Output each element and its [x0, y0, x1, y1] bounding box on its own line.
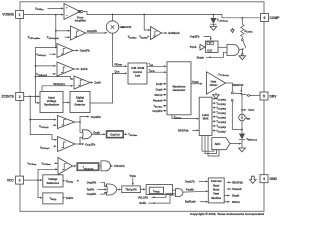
wire VCC rail [241, 94, 255, 115]
svg-text:Ocp2Fb: Ocp2Fb [87, 192, 97, 196]
block fault and burst mode state machine [208, 178, 224, 203]
wire Ocp2 to OR gate [80, 122, 83, 132]
bus CS from pin 2 [29, 96, 57, 140]
ground under D2 [239, 148, 246, 152]
svg-text:ADC: ADC [215, 142, 221, 146]
wire TDCM [147, 69, 167, 73]
svg-text:CrM / DCM: CrM / DCM [131, 66, 144, 70]
ground under D1 [210, 27, 217, 31]
svg-text:Voltage: Voltage [47, 99, 57, 103]
wire VCC to UVLO comparator [38, 168, 58, 180]
wire MUX to ADC select lines [202, 136, 219, 157]
wire Ocp1 to OR gate [80, 137, 83, 144]
diode D2 clamp [239, 134, 258, 149]
svg-text:2: 2 [19, 95, 21, 99]
wire COMP rail [83, 12, 260, 19]
wire TOnb to gate driver [191, 80, 203, 85]
label Stopb to gate [197, 52, 228, 59]
svg-text:Peak: Peak [77, 99, 84, 103]
svg-text:5: 5 [263, 95, 265, 99]
svg-text:VinSyn(c): VinSyn(c) [53, 83, 65, 86]
node Pauseb state machine [227, 187, 242, 191]
comparator BstRun [144, 15, 180, 40]
svg-text:Faultb: Faultb [186, 188, 194, 192]
label BstRunb to state machine [185, 200, 208, 204]
label RDGFdb into MUX [178, 128, 199, 132]
wire gate output down [231, 99, 233, 129]
svg-text:SSCnt: SSCnt [232, 200, 240, 204]
svg-text:Qcc: Qcc [115, 70, 121, 74]
svg-text:Gate: Gate [211, 79, 217, 83]
svg-text:TOnb: TOnb [129, 175, 136, 178]
AND gate UVLO [99, 161, 125, 171]
wire TSOMax out [124, 133, 139, 137]
pin 5 DRV [260, 92, 277, 100]
wire synthesizer to detector [63, 102, 70, 104]
svg-text:Machine: Machine [211, 197, 221, 200]
svg-text:SSCtrl4: SSCtrl4 [122, 25, 132, 29]
label SSCtrl4 [119, 25, 132, 29]
flip-flop FF1 [206, 41, 219, 53]
node Stopb state machine [224, 194, 239, 198]
svg-text:RDGFdb: RDGFdb [232, 181, 243, 185]
ground small above gate [231, 28, 234, 33]
label Ocp2Fb to OR2 [87, 192, 108, 197]
svg-text:1: 1 [19, 13, 21, 17]
AND gate discharge control [227, 45, 244, 56]
node RDGFdb state machine [227, 181, 244, 185]
block TSD [43, 193, 63, 204]
svg-text:VCC: VCC [7, 178, 15, 182]
block CrM DCM control law [128, 63, 147, 84]
node Pauseb input [153, 99, 167, 103]
node SSCnt input [154, 93, 166, 97]
svg-text:Control: Control [133, 70, 142, 74]
svg-text:Zcdb: Zcdb [94, 81, 101, 85]
svg-text:TOnb: TOnb [192, 80, 199, 84]
node TCCSR3 [212, 111, 227, 115]
block OcpCnt [106, 131, 123, 138]
wire pin 2 to synthesizer [24, 95, 40, 97]
wire Ovp1Fb to multiplier [86, 29, 108, 34]
comparator Bo [36, 62, 89, 76]
wire ADC to rail [230, 143, 242, 145]
svg-text:OcpCnt: OcpCnt [110, 133, 120, 137]
pin 2 ZCD/CS [2, 92, 24, 100]
label UVLOFb to fault gate [138, 194, 175, 200]
svg-text:Stopb: Stopb [232, 194, 240, 198]
node TCCSR7 [212, 130, 227, 134]
svg-text:Amplifier: Amplifier [75, 18, 86, 22]
svg-text:ThrCycFlt: ThrCycFlt [125, 189, 136, 192]
wire Ocp1Fb [79, 143, 96, 147]
pin 6 COMP [261, 14, 281, 22]
AND gate Faultb [173, 188, 209, 197]
node TCCSR2 [212, 107, 227, 111]
node TCCSR1 [212, 102, 227, 106]
node TCCSR4 [212, 116, 227, 120]
svg-text:Burst: Burst [213, 184, 219, 187]
wire TON [147, 63, 167, 67]
wire VOSNS from pin 1 [24, 14, 64, 16]
node Ocpb input [156, 87, 167, 91]
comparator Zcd [36, 76, 102, 89]
node TCCSR6 [212, 125, 227, 129]
wire Ocp2Fb [79, 115, 101, 123]
svg-text:Copyright © 2018, Texas Instru: Copyright © 2018, Texas Instruments Inco… [190, 212, 264, 216]
label VOSReg [35, 6, 64, 11]
label VBstMax VBstMin [128, 35, 150, 39]
wire rail to clamp [232, 121, 243, 134]
svg-text:Ocp1Fb: Ocp1Fb [85, 143, 95, 147]
svg-text:Pauseb: Pauseb [232, 187, 242, 191]
label VOSBoFall [36, 73, 56, 77]
ground under S1 [239, 56, 246, 60]
pin 4 GND [260, 175, 277, 183]
op-amp U1 error amplifier [64, 4, 86, 23]
svg-text:DRV: DRV [270, 95, 278, 99]
svg-text:BoFb: BoFb [81, 67, 88, 71]
svg-text:RDGFdb: RDGFdb [178, 128, 189, 132]
pin 3 VCC [7, 176, 24, 184]
pin 1 VOSNS [2, 10, 23, 18]
svg-text:Latch: Latch [202, 113, 209, 117]
block voltage reference [43, 175, 63, 187]
svg-text:Detector: Detector [75, 103, 86, 107]
node Ocp1Fb input [152, 109, 166, 113]
comparator Ovp1 [55, 26, 86, 40]
copyright [190, 212, 264, 216]
node Zcdb input [156, 82, 167, 86]
svg-text:PDem: PDem [115, 63, 123, 67]
svg-text:6: 6 [264, 16, 266, 20]
svg-text:TOnb: TOnb [190, 45, 197, 49]
node SSCnt state machine [224, 200, 240, 204]
svg-text:Digital: Digital [76, 96, 84, 100]
svg-text:Voltage: Voltage [48, 177, 58, 181]
svg-text:VOSNS: VOSNS [2, 13, 14, 17]
svg-text:Generator: Generator [173, 88, 186, 92]
resistor RCODis [241, 18, 254, 39]
svg-text:Stopb: Stopb [197, 56, 205, 60]
block ThrCycFlt [122, 186, 141, 193]
svg-text:BoFb: BoFb [140, 201, 147, 205]
bus B VOSNS vertical [35, 15, 57, 104]
svg-text:CLR: CLR [207, 49, 212, 52]
block TFltDly outer [146, 185, 173, 195]
comparator Ovp2 [56, 44, 90, 58]
svg-text:Ocpb: Ocpb [93, 130, 100, 134]
block digital peak detector [70, 92, 90, 113]
svg-text:TsdFb: TsdFb [66, 197, 74, 200]
block TUVLOmax [77, 163, 99, 171]
label Ovp2Fb to OR2 [87, 180, 108, 187]
OR gate Ocp [82, 130, 92, 139]
svg-text:Ovp1Fb: Ovp1Fb [185, 179, 195, 183]
svg-text:BstRunb: BstRunb [185, 200, 196, 204]
block ADC [212, 138, 230, 150]
svg-text:Mode: Mode [213, 189, 220, 192]
label TOnb into ThrCycFlt [129, 175, 136, 186]
svg-text:Zcdb: Zcdb [156, 82, 163, 86]
wire VCC pin to reference [24, 179, 43, 181]
node TSOMax input [153, 105, 166, 109]
wire VCC down to TSD [38, 180, 43, 199]
label Ovp1Fb to state machine [185, 179, 208, 183]
svg-text:3: 3 [19, 179, 21, 183]
svg-text:Fault and: Fault and [211, 180, 222, 183]
svg-text:Ovp2Fb: Ovp2Fb [80, 49, 90, 53]
svg-text:Ovp2Fb: Ovp2Fb [87, 180, 97, 184]
svg-text:Ocp2Fb: Ocp2Fb [91, 115, 101, 119]
svg-text:Ovp1Fb: Ovp1Fb [87, 29, 97, 33]
svg-text:Waveform: Waveform [173, 84, 187, 88]
comparator Ocp2 [30, 116, 80, 129]
svg-text:Pauseb: Pauseb [153, 99, 163, 103]
wire VRef output [63, 180, 80, 184]
label VCCStop VCCStart [27, 162, 58, 166]
wire FF Q to gate [218, 46, 227, 48]
node TCCSR0 [212, 98, 227, 102]
svg-text:TsdFb: TsdFb [87, 187, 95, 191]
svg-text:MUX: MUX [203, 117, 209, 121]
block latch MUX [199, 97, 212, 135]
label Ovp2Fb to FF [190, 35, 212, 41]
wire ThrCycFlt to TFltDly [140, 188, 145, 190]
svg-text:BstRunb: BstRunb [168, 31, 180, 35]
multiplier X1 [106, 15, 118, 34]
label VinSynC [42, 83, 73, 91]
svg-text:SSCnt: SSCnt [154, 93, 162, 97]
svg-text:Ovp2Fb: Ovp2Fb [190, 35, 200, 39]
svg-text:GND: GND [270, 177, 278, 181]
svg-text:TFltDly: TFltDly [153, 191, 161, 194]
svg-text:ZCD/CS: ZCD/CS [2, 95, 15, 99]
label BoFb to fault gate [140, 195, 175, 205]
switch S1 COMP discharge [241, 39, 245, 55]
buffer TOnb to FF [190, 44, 206, 50]
svg-text:Driver: Driver [210, 83, 218, 87]
wire multiplier to PDem [113, 33, 128, 67]
current source IBB [239, 114, 251, 121]
svg-text:State: State [213, 193, 220, 196]
wire Qcc detector to control law [90, 70, 127, 103]
svg-text:4: 4 [263, 177, 265, 181]
svg-text:RDGFdb: RDGFdb [233, 83, 244, 87]
comparator UVLO [58, 158, 77, 175]
svg-text:UVLOFb: UVLOFb [114, 164, 125, 168]
OR gate fault inputs [106, 184, 121, 195]
wire TPause into MUX [172, 115, 199, 120]
ground arrow GND pin [250, 176, 257, 183]
diode D1 COMP clamp [210, 15, 228, 27]
svg-text:Reference: Reference [47, 181, 60, 185]
label VCSOcp1 [40, 145, 57, 150]
svg-text:VCC: VCC [248, 108, 255, 112]
node TCCSR5 [212, 120, 227, 124]
wire TsdFb output [63, 197, 74, 200]
svg-text:COMP: COMP [270, 16, 281, 20]
label RDGFdb tap [233, 83, 244, 93]
comparator Ocp1 [58, 137, 81, 152]
label VCSOcp2 [39, 124, 57, 129]
svg-text:Synthesizer: Synthesizer [44, 103, 59, 107]
svg-text:Input: Input [48, 96, 55, 100]
block waveform generator [167, 62, 191, 115]
label VOSOvp2 [36, 53, 56, 57]
label TsdFb to OR2 [87, 187, 107, 191]
chip boundary [20, 2, 264, 212]
label VOSOvpRise VOSOvpFall [28, 36, 71, 40]
op-amp U2 gate driver [207, 72, 229, 94]
wire Ocpb to OcpCnt [92, 130, 106, 135]
svg-text:UVLOFb: UVLOFb [138, 195, 149, 199]
block input voltage synthesizer [40, 92, 63, 113]
svg-text:Ocp1Fb: Ocp1Fb [152, 109, 162, 113]
ground under gate driver [213, 93, 220, 99]
wire DRV output and switch [226, 83, 261, 96]
svg-text:Ocpb: Ocpb [156, 87, 163, 91]
